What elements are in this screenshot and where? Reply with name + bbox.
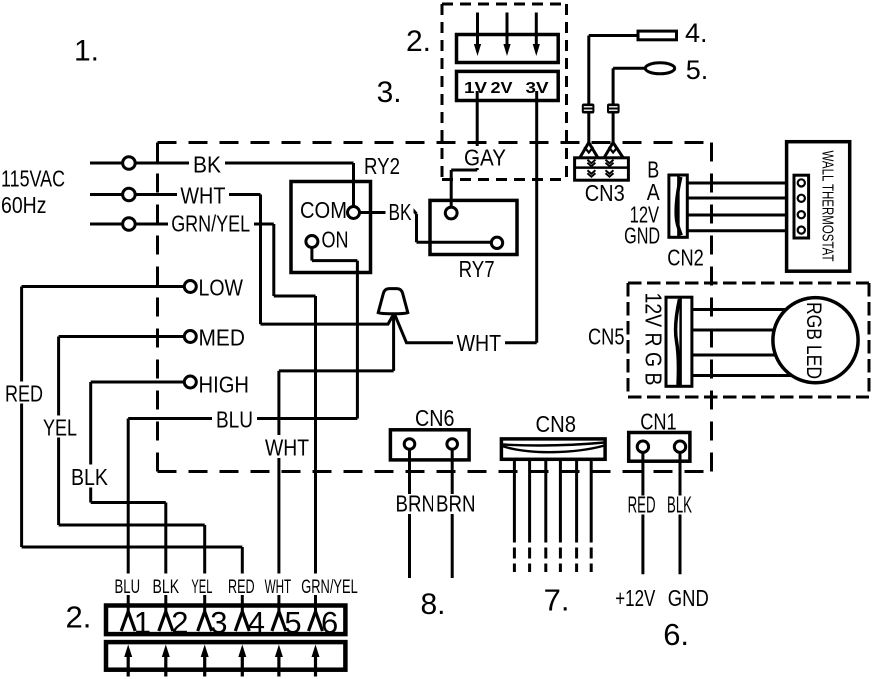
fan speed terminal MED — [184, 331, 196, 343]
label WHT (terminal 5 wire) — [261, 435, 313, 458]
wall thermostat terminal 2 — [798, 195, 805, 202]
wire YEL from MED to terminal 3 — [59, 337, 205, 612]
svg-text:RED: RED — [5, 381, 43, 407]
relay RY7 — [430, 200, 517, 254]
svg-text:BLU: BLU — [216, 407, 253, 433]
label BK (COM to RY7 wire) — [386, 202, 414, 222]
wire CN8 lead 1 — [513, 459, 516, 542]
wire CN8 lead 6 dashed end — [590, 548, 593, 573]
svg-text:CN1: CN1 — [640, 409, 677, 435]
svg-text:60Hz: 60Hz — [1, 192, 47, 218]
module 2 input arrow 2 — [506, 13, 509, 46]
CN2 body divider — [677, 175, 680, 237]
wall thermostat terminal 1 — [798, 179, 805, 186]
svg-text:BLK: BLK — [667, 492, 692, 518]
line terminal L (BK) — [123, 157, 136, 170]
svg-text:BK: BK — [389, 199, 412, 225]
svg-text:CN6: CN6 — [415, 405, 455, 431]
svg-text:1V: 1V — [464, 80, 487, 97]
wire WHT from buzzer junction to 3V wire — [394, 314, 536, 343]
wire CN1 pin 2 lead BLK — [679, 452, 682, 574]
connector CN6 body — [390, 430, 469, 460]
svg-text:ON: ON — [322, 227, 349, 253]
label GAY — [460, 146, 510, 168]
wall thermostat box — [787, 142, 850, 272]
wall thermostat terminal block — [794, 175, 809, 238]
connector CN1 body — [629, 433, 690, 462]
svg-text:5: 5 — [284, 605, 301, 640]
terminal strip (plug side) — [106, 606, 345, 635]
svg-text:RED: RED — [228, 577, 255, 598]
svg-text:3: 3 — [210, 605, 227, 640]
svg-text:RED: RED — [628, 492, 656, 518]
svg-text:5.: 5. — [686, 55, 709, 85]
label BLU — [212, 407, 257, 430]
svg-text:BRN: BRN — [396, 491, 436, 517]
label WHT (line wire) — [177, 184, 229, 205]
CN5 crimp curve — [676, 299, 680, 385]
svg-text:CN5: CN5 — [588, 324, 625, 350]
svg-text:CN8: CN8 — [536, 411, 577, 437]
svg-text:12V R G B: 12V R G B — [641, 293, 667, 386]
svg-text:GND: GND — [668, 585, 709, 611]
CN5 LED module outline (dashed box) — [628, 283, 869, 397]
wire WHT from buzzer junction to terminal 5 — [279, 312, 394, 611]
wire CN8 lead 4 dashed end — [559, 548, 562, 573]
module 2/3 outline (dashed box) — [442, 4, 567, 180]
wire sensor 4 lead — [589, 36, 638, 105]
CN1 pin 1 — [637, 441, 648, 452]
svg-text:WHT: WHT — [180, 182, 225, 208]
svg-text:BRN: BRN — [436, 491, 476, 517]
svg-text:4.: 4. — [685, 18, 708, 48]
wire CN5 G to RGB LED — [692, 354, 800, 357]
svg-text:WHT: WHT — [265, 435, 309, 461]
wire CN8 lead 5 — [575, 459, 578, 542]
svg-text:YEL: YEL — [191, 577, 212, 598]
svg-text:2.: 2. — [406, 25, 431, 58]
CN3 body divider — [575, 166, 629, 169]
terminal strip spade forks — [121, 612, 322, 632]
wire CN8 lead 2 dashed end — [528, 548, 531, 573]
RY7 coil terminal 1 — [445, 207, 457, 219]
COM contact of RY2 — [348, 207, 360, 219]
wire WHT from line terminal to buzzer junction — [90, 195, 394, 325]
crimp splice on sensor 5 lead — [607, 104, 620, 114]
label WHT (buzzer wire) — [453, 332, 505, 353]
CN5 body divider — [679, 297, 682, 386]
label RED (LOW wire) — [2, 382, 46, 404]
connector CN2 body — [669, 175, 687, 237]
svg-text:GRN/YEL: GRN/YEL — [301, 577, 358, 598]
RY7 coil terminal 2 — [491, 237, 502, 248]
label BLK (HIGH wire) — [68, 465, 111, 488]
connector CN8 body — [501, 439, 605, 459]
wire GRN/YEL from line terminal to terminal 6 — [90, 224, 316, 611]
RGB LED lamp — [773, 298, 858, 383]
module 2 input box — [457, 35, 559, 63]
CN8 ribbon curves — [502, 443, 605, 446]
wire CN8 lead 1 dashed end — [513, 548, 516, 573]
CN2 crimp curve — [676, 177, 681, 235]
label BRN (CN6 pin 2 wire) — [433, 494, 480, 514]
svg-text:HIGH: HIGH — [199, 372, 250, 398]
svg-text:WHT: WHT — [457, 330, 502, 356]
wire CN8 lead 3 — [544, 459, 547, 542]
svg-text:COM: COM — [300, 197, 347, 223]
svg-text:GRN/YEL: GRN/YEL — [171, 211, 250, 237]
svg-text:CN2: CN2 — [667, 245, 704, 271]
wire CN5 12V to RGB LED — [692, 308, 800, 311]
svg-text:LOW: LOW — [199, 275, 244, 301]
svg-text:4: 4 — [248, 605, 265, 640]
wire CN6 pin 1 lead BRN — [408, 449, 411, 578]
wire CN8 lead 2 — [528, 459, 531, 542]
terminal strip pins (up arrows) — [128, 655, 315, 677]
svg-text:MED: MED — [199, 325, 246, 351]
connector CN5 body — [666, 297, 692, 386]
label RED (CN1 wire) — [624, 496, 659, 515]
wire CN2 A to wall thermostat — [687, 197, 794, 200]
svg-text:6.: 6. — [663, 617, 689, 652]
module 2 input arrow 3 — [535, 13, 538, 46]
svg-text:7.: 7. — [544, 583, 570, 618]
wire CN8 lead 5 dashed end — [575, 548, 578, 573]
wire sensor 5 lead to CN3 — [612, 113, 615, 143]
terminal strip wire color labels — [104, 574, 364, 596]
wire BLU from RY2 ON to terminal 1 — [128, 419, 357, 612]
sensor 4 probe body — [638, 31, 677, 40]
label BLK (CN1 wire) — [664, 496, 695, 515]
svg-text:BK: BK — [193, 152, 222, 178]
module 3 output box (1V 2V 3V) — [457, 71, 559, 100]
wire BK from COM to RY7 coil — [360, 208, 492, 243]
connector CN3 body — [575, 158, 629, 180]
connector CN3 wire entry 1 — [580, 143, 599, 159]
wire RED from LOW to terminal 4 — [22, 287, 243, 612]
svg-text:BLK: BLK — [153, 577, 180, 598]
sensor 5 probe bulb — [645, 63, 674, 74]
svg-text:RGB LED: RGB LED — [802, 302, 826, 379]
svg-text:WALL THERMOSTAT: WALL THERMOSTAT — [819, 151, 836, 262]
module 2 input arrow 1 — [476, 13, 479, 46]
fan speed terminal HIGH — [184, 376, 196, 388]
control board outline (dashed box) — [158, 143, 712, 472]
svg-text:YEL: YEL — [43, 415, 77, 441]
svg-text:BLU: BLU — [115, 577, 141, 598]
svg-text:1.: 1. — [74, 35, 99, 68]
svg-text:+12V: +12V — [615, 585, 655, 611]
svg-text:WHT: WHT — [265, 577, 292, 598]
CN6 pin 2 — [447, 439, 458, 450]
svg-text:2.: 2. — [66, 599, 92, 634]
svg-text:RY7: RY7 — [459, 256, 495, 282]
crimp splice on sensor 4 lead — [582, 104, 595, 114]
svg-text:3V: 3V — [526, 80, 549, 97]
wire CN8 lead 6 — [590, 459, 593, 542]
svg-text:6: 6 — [321, 605, 338, 640]
CN3 crimp chevrons — [587, 160, 613, 177]
wire CN2 B to wall thermostat — [687, 182, 794, 185]
wire CN2 12V to wall thermostat — [687, 214, 794, 217]
wire CN8 lead 4 — [559, 459, 562, 542]
svg-text:8.: 8. — [421, 588, 446, 621]
wire BK from line terminal to RY2 COM — [90, 163, 354, 207]
wire GAY from 1V pin to RY7 — [451, 91, 477, 207]
svg-text:115VAC: 115VAC — [1, 166, 65, 192]
svg-text:CN3: CN3 — [585, 180, 625, 206]
svg-text:BLK: BLK — [71, 464, 109, 490]
svg-text:2: 2 — [171, 605, 188, 640]
wire CN2 GND to wall thermostat — [687, 229, 794, 232]
wire CN6 pin 2 lead BRN — [451, 449, 454, 578]
svg-text:1: 1 — [134, 605, 151, 640]
wire sensor 4 lead to CN3 — [587, 113, 590, 143]
wall thermostat terminal 3 — [798, 211, 805, 218]
label BRN (CN6 pin 1 wire) — [392, 494, 439, 514]
fan speed terminal LOW — [184, 281, 196, 293]
label YEL (MED wire) — [40, 416, 80, 438]
wire BLK from HIGH to terminal 2 — [91, 382, 185, 611]
line terminal N (WHT) — [123, 188, 136, 201]
svg-text:GAY: GAY — [464, 144, 506, 170]
wire CN1 pin 1 lead RED — [641, 452, 644, 574]
CN6 pin 1 — [404, 439, 415, 450]
wall thermostat terminal 4 — [798, 227, 805, 234]
wire CN8 lead 3 dashed end — [544, 548, 547, 573]
label GRN/YEL (line wire) — [168, 214, 254, 234]
svg-text:3.: 3. — [377, 76, 402, 109]
relay RY2 — [291, 182, 371, 273]
svg-text:RY2: RY2 — [364, 153, 400, 179]
line terminal PE (GRN/YEL) — [123, 218, 136, 231]
CN1 pin 2 — [674, 441, 685, 452]
wire CN5 B to RGB LED — [692, 374, 800, 377]
svg-text:GND: GND — [624, 223, 660, 249]
buzzer — [378, 289, 408, 314]
connector CN3 wire entry 2 — [604, 143, 624, 159]
svg-text:2V: 2V — [491, 80, 513, 97]
wire from ON contact down to BLU — [312, 248, 358, 419]
wire sensor 5 lead — [613, 68, 645, 104]
terminal strip (pin side) — [106, 642, 345, 670]
wire CN5 R to RGB LED — [692, 329, 800, 332]
label BK (line wire) — [189, 152, 225, 173]
ON contact of RY2 — [306, 236, 318, 248]
wire from 3V pin down to WHT junction — [535, 91, 538, 343]
